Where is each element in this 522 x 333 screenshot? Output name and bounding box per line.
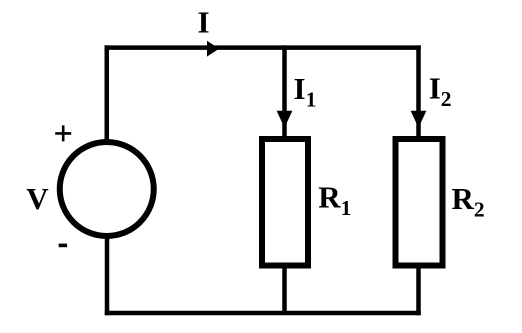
current arrow I on top conductor <box>207 41 219 57</box>
wire: R2 bottom lead <box>416 268 421 313</box>
current arrowhead I1 <box>277 111 293 128</box>
wire: top horizontal conductor (node carrying current I) <box>107 45 419 50</box>
resistor R2 <box>396 139 443 266</box>
svg-text:V: V <box>26 181 49 216</box>
wire: bottom return conductor <box>107 311 419 316</box>
polarity + mark <box>55 125 71 141</box>
wire: R1 bottom lead <box>282 268 287 313</box>
current arrowhead I2 <box>411 111 427 128</box>
voltage source V (circle) <box>60 142 154 236</box>
resistor R1 <box>262 139 308 266</box>
wire: V+ lead up to top-left corner <box>105 48 110 140</box>
wire: branch lead from top node down to R1 <box>282 48 287 136</box>
wire: top-right vertical lead down to R2 <box>416 48 421 136</box>
polarity - mark <box>59 244 67 248</box>
wire: V- lead down to bottom-left corner <box>105 239 110 313</box>
svg-text:I: I <box>197 4 209 39</box>
